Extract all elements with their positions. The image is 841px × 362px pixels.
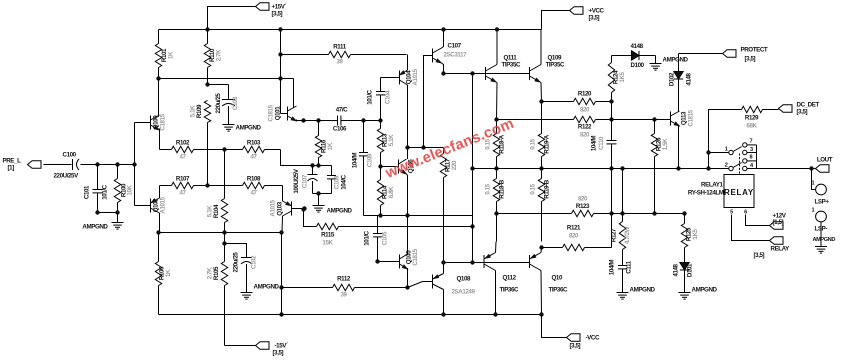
svg-text:220u/25: 220u/25 bbox=[233, 252, 240, 273]
svg-text:AMPGND: AMPGND bbox=[663, 57, 689, 64]
svg-text:C107: C107 bbox=[302, 174, 309, 188]
svg-text:6.8K: 6.8K bbox=[388, 186, 395, 198]
svg-text:68K: 68K bbox=[746, 123, 757, 130]
diode D101 bbox=[673, 248, 694, 293]
svg-text:[3,5]: [3,5] bbox=[797, 109, 808, 116]
ground C102 bbox=[241, 284, 280, 300]
svg-text:101/C: 101/C bbox=[102, 184, 109, 199]
svg-text:TIP35C: TIP35C bbox=[546, 62, 566, 69]
wire LSP+ feed bbox=[812, 169, 816, 190]
svg-text:220U/25V: 220U/25V bbox=[54, 173, 80, 180]
capacitor C111 bbox=[609, 250, 633, 293]
resistor R126 bbox=[651, 120, 669, 216]
wire node78 bbox=[156, 76, 293, 80]
resistor R102 bbox=[172, 140, 194, 161]
svg-text:Q112: Q112 bbox=[503, 275, 517, 282]
svg-text:[3,5]: [3,5] bbox=[273, 350, 284, 357]
transistor Q112 bbox=[484, 242, 519, 315]
wire left col down bbox=[279, 233, 283, 317]
svg-text:[3,5]: [3,5] bbox=[272, 11, 283, 18]
wire +15V rail bbox=[159, 29, 542, 31]
svg-text:47: 47 bbox=[179, 190, 186, 197]
svg-text:0.15: 0.15 bbox=[530, 183, 537, 194]
svg-text:C1815: C1815 bbox=[160, 113, 167, 130]
resistor R113 bbox=[377, 121, 395, 167]
wire PROTECT bbox=[679, 53, 723, 55]
wire fb column bbox=[609, 166, 613, 247]
svg-text:R129: R129 bbox=[745, 115, 759, 122]
svg-text:1K: 1K bbox=[165, 269, 172, 277]
svg-text:AMPGND: AMPGND bbox=[327, 208, 353, 215]
svg-text:C109: C109 bbox=[367, 153, 374, 167]
svg-text:47: 47 bbox=[250, 154, 257, 161]
svg-text:Q103: Q103 bbox=[277, 201, 284, 215]
svg-text:LSP+: LSP+ bbox=[815, 199, 830, 206]
ground D100 bbox=[650, 56, 689, 71]
wire line120 bbox=[297, 120, 338, 122]
wire fb line247 bbox=[542, 247, 563, 249]
wire bottom rail bbox=[159, 312, 544, 316]
svg-text:[3,5]: [3,5] bbox=[570, 343, 581, 350]
svg-text:15K: 15K bbox=[322, 240, 333, 247]
svg-text:C1815: C1815 bbox=[688, 109, 695, 126]
svg-text:4148: 4148 bbox=[673, 263, 680, 276]
watermark bbox=[382, 115, 516, 182]
resistor R101 bbox=[155, 30, 174, 79]
svg-text:R127: R127 bbox=[611, 228, 618, 242]
relay label bbox=[688, 182, 724, 197]
wire emitters line261 bbox=[441, 260, 529, 264]
capacitor C103 bbox=[205, 82, 239, 124]
svg-text:2.7K: 2.7K bbox=[216, 49, 223, 61]
svg-text:R103: R103 bbox=[247, 140, 261, 147]
resistor R109 bbox=[190, 101, 211, 186]
svg-text:R118-B: R118-B bbox=[499, 179, 506, 199]
wire line120b bbox=[341, 118, 383, 122]
wire +VCC feed bbox=[542, 11, 570, 30]
wire line216 bbox=[364, 213, 473, 217]
wire R111 feed bbox=[281, 54, 329, 56]
resistor R118-A bbox=[485, 117, 506, 168]
wire bias column bbox=[470, 74, 474, 263]
resistor R108 bbox=[243, 176, 265, 197]
resistor R114 bbox=[377, 164, 395, 215]
relay pins bbox=[730, 210, 747, 216]
resistor R119-A bbox=[530, 99, 551, 168]
svg-text:R112: R112 bbox=[337, 276, 351, 283]
svg-text:R122: R122 bbox=[578, 124, 592, 131]
svg-text:R121: R121 bbox=[567, 225, 581, 232]
transistor C107 driver bbox=[433, 27, 468, 74]
wire relay vert bbox=[706, 145, 756, 175]
svg-text:R102: R102 bbox=[176, 140, 190, 147]
svg-text:AMPGND: AMPGND bbox=[254, 284, 280, 291]
svg-text:Q109: Q109 bbox=[548, 55, 562, 62]
svg-text:R107: R107 bbox=[176, 176, 190, 183]
transistor Q108 bbox=[432, 263, 475, 315]
svg-text:4148: 4148 bbox=[631, 43, 644, 50]
svg-text:C102: C102 bbox=[251, 255, 258, 269]
svg-text:C103: C103 bbox=[232, 96, 239, 110]
resistor R119-B bbox=[530, 166, 551, 249]
svg-text:1K: 1K bbox=[327, 142, 334, 150]
svg-text:-15V´: -15V´ bbox=[275, 343, 288, 350]
resistor R105 bbox=[207, 233, 228, 346]
svg-text:47: 47 bbox=[250, 190, 257, 197]
resistor R116 bbox=[315, 121, 334, 166]
svg-text:Q111: Q111 bbox=[504, 55, 518, 62]
wire line232 bbox=[156, 230, 283, 234]
svg-text:2SA1249: 2SA1249 bbox=[452, 289, 476, 296]
diode D102 bbox=[669, 54, 693, 110]
diode D100 bbox=[612, 43, 656, 69]
resistor R111 bbox=[329, 44, 351, 66]
svg-text:820: 820 bbox=[569, 233, 579, 240]
svg-text:[3,5]: [3,5] bbox=[745, 56, 756, 63]
transistor Q106 bbox=[381, 159, 415, 216]
wire driver base line bbox=[441, 71, 529, 75]
svg-text:1K5: 1K5 bbox=[619, 71, 626, 82]
svg-text:Q113: Q113 bbox=[681, 111, 688, 125]
svg-text:Q108: Q108 bbox=[457, 276, 471, 283]
svg-text:AMPGND: AMPGND bbox=[692, 287, 718, 294]
svg-text:D102: D102 bbox=[669, 72, 676, 86]
svg-text:RELAY: RELAY bbox=[724, 188, 754, 197]
resistor R115 bbox=[301, 207, 474, 246]
svg-text:PRE_L: PRE_L bbox=[3, 158, 22, 165]
power flag +VCC bbox=[570, 7, 605, 22]
wire line213b bbox=[594, 211, 687, 215]
svg-text:R115: R115 bbox=[321, 232, 335, 239]
svg-text:C111: C111 bbox=[626, 260, 633, 273]
wire -15V bbox=[225, 345, 256, 347]
resistor R122 bbox=[497, 116, 671, 138]
svg-text:101/C: 101/C bbox=[367, 89, 374, 104]
svg-text:104/M: 104/M bbox=[609, 260, 616, 275]
wire mid185 bbox=[194, 183, 243, 187]
svg-text:47/C: 47/C bbox=[336, 107, 348, 114]
resistor R107 bbox=[172, 176, 194, 197]
svg-text:RELAY: RELAY bbox=[771, 246, 791, 253]
svg-text:10K: 10K bbox=[127, 184, 134, 195]
svg-text:104/C: 104/C bbox=[341, 174, 348, 189]
svg-text:4148: 4148 bbox=[686, 72, 693, 85]
resistor R123 bbox=[572, 196, 594, 217]
resistor R112 bbox=[282, 276, 433, 299]
svg-text:LOUT: LOUT bbox=[817, 157, 833, 164]
transistor Q101 bbox=[268, 27, 298, 121]
svg-text:2: 2 bbox=[725, 163, 728, 169]
transistor Q111 bbox=[486, 27, 522, 119]
svg-text:[1]: [1] bbox=[8, 165, 15, 172]
svg-text:+15V´: +15V´ bbox=[272, 4, 287, 11]
svg-text:47: 47 bbox=[179, 154, 186, 161]
svg-text:TIP35C: TIP35C bbox=[502, 62, 522, 69]
transistor Q100 bbox=[135, 79, 167, 150]
transistor Q102 bbox=[135, 186, 167, 233]
capacitor C100 bbox=[54, 152, 80, 180]
svg-text:Q10: Q10 bbox=[552, 275, 563, 282]
svg-text:R120: R120 bbox=[578, 91, 592, 98]
svg-text:AMPGND: AMPGND bbox=[236, 125, 262, 132]
resistor R120 bbox=[542, 91, 612, 114]
connector PRE_L bbox=[3, 158, 42, 172]
wire fb line213 bbox=[497, 213, 572, 215]
transistor Q109 bbox=[530, 30, 566, 102]
svg-text:D100: D100 bbox=[631, 62, 645, 69]
svg-text:[1,5]: [1,5] bbox=[773, 219, 784, 226]
svg-text:220: 220 bbox=[451, 160, 458, 170]
capacitor C108 bbox=[327, 166, 348, 194]
capacitor C101 bbox=[84, 165, 109, 213]
svg-text:DC_DET: DC_DET bbox=[797, 102, 820, 109]
svg-text:2SC3117: 2SC3117 bbox=[444, 52, 468, 59]
svg-text:RELAY1: RELAY1 bbox=[701, 182, 723, 189]
power flag RELAY bbox=[754, 237, 791, 259]
svg-text:C110: C110 bbox=[598, 136, 605, 150]
power flag +15V bbox=[256, 3, 287, 18]
svg-text:AMPGND: AMPGND bbox=[813, 237, 836, 243]
svg-text:100U/25V: 100U/25V bbox=[293, 168, 300, 194]
svg-text:PROTECT: PROTECT bbox=[741, 47, 768, 54]
svg-text:R119-A: R119-A bbox=[544, 134, 551, 154]
power flag LOUT bbox=[816, 157, 833, 173]
svg-text:R111: R111 bbox=[333, 44, 346, 51]
svg-text:7: 7 bbox=[750, 139, 753, 145]
resistor R103 bbox=[243, 140, 265, 161]
wire LSP- gnd bbox=[820, 222, 822, 247]
svg-text:820: 820 bbox=[580, 132, 590, 139]
svg-text:[3,5]: [3,5] bbox=[589, 15, 600, 22]
svg-text:1: 1 bbox=[812, 208, 815, 214]
relay contact 2 bbox=[725, 155, 757, 171]
wire line147 bbox=[408, 147, 444, 149]
resistor R125 bbox=[681, 214, 699, 248]
svg-text:1.5K: 1.5K bbox=[662, 138, 669, 150]
resistor R124 bbox=[608, 56, 626, 141]
svg-text:C101: C101 bbox=[84, 185, 91, 199]
power flag PROTECT bbox=[723, 47, 768, 63]
svg-text:Q101: Q101 bbox=[275, 106, 282, 120]
capacitor C102 bbox=[225, 244, 258, 293]
wire Q101 emitter line bbox=[297, 118, 338, 122]
transistor Q110 bbox=[529, 248, 568, 315]
svg-text:220u/25: 220u/25 bbox=[215, 93, 222, 114]
resistor R110 bbox=[204, 7, 222, 85]
svg-text:A1015: A1015 bbox=[270, 199, 277, 216]
svg-text:A1015: A1015 bbox=[160, 196, 167, 213]
svg-text:Q102: Q102 bbox=[153, 198, 160, 212]
transistor Q113 bbox=[671, 109, 695, 170]
wire line185 bbox=[160, 185, 172, 187]
svg-text:39: 39 bbox=[336, 59, 343, 66]
ground D101 bbox=[679, 287, 718, 300]
wire R111 to Q104 bbox=[351, 54, 407, 56]
svg-text:Q100: Q100 bbox=[153, 115, 160, 129]
wire +15V feed bbox=[205, 7, 255, 32]
svg-text:RY-SH-124LM: RY-SH-124LM bbox=[688, 190, 724, 197]
svg-text:R108: R108 bbox=[247, 176, 261, 183]
svg-text:R105: R105 bbox=[213, 266, 220, 280]
svg-text:R119-B: R119-B bbox=[544, 179, 551, 199]
svg-text:104/M: 104/M bbox=[352, 153, 359, 168]
wire base rail bbox=[132, 123, 136, 206]
capacitor C105 bbox=[364, 216, 389, 264]
svg-text:C107: C107 bbox=[448, 43, 462, 50]
svg-text:1: 1 bbox=[725, 147, 728, 153]
svg-text:TIP36C: TIP36C bbox=[500, 287, 520, 294]
wire relay coil 5 bbox=[732, 215, 770, 241]
wire cap bus bot bbox=[313, 191, 332, 205]
wire input bbox=[44, 164, 72, 166]
svg-text:1: 1 bbox=[812, 181, 815, 187]
svg-text:C1815: C1815 bbox=[268, 104, 275, 121]
ground C111 bbox=[617, 287, 656, 300]
svg-text:C108: C108 bbox=[334, 175, 341, 189]
capacitor C110 bbox=[591, 136, 617, 169]
svg-text:0.15: 0.15 bbox=[485, 183, 492, 194]
transistor Q104 bbox=[381, 55, 420, 160]
relay box bbox=[724, 175, 754, 208]
wire input node bbox=[81, 162, 135, 166]
resistor R117 bbox=[440, 148, 458, 263]
svg-text:4.7/2W: 4.7/2W bbox=[624, 226, 631, 244]
svg-text:820: 820 bbox=[580, 107, 590, 114]
svg-text:R123: R123 bbox=[576, 203, 590, 210]
svg-text:R104: R104 bbox=[213, 204, 220, 218]
svg-text:C1815: C1815 bbox=[412, 248, 419, 265]
resistor R129 bbox=[709, 106, 779, 152]
power flag +12V bbox=[770, 213, 787, 230]
resistor R104 bbox=[207, 150, 228, 233]
relay contact 1 bbox=[709, 139, 757, 155]
svg-text:39: 39 bbox=[340, 292, 347, 299]
svg-text:1K: 1K bbox=[168, 51, 175, 59]
svg-text:101/C: 101/C bbox=[364, 230, 371, 245]
terminal LSP- bbox=[812, 208, 828, 233]
svg-text:0.15: 0.15 bbox=[530, 138, 537, 149]
wire R103 right bbox=[265, 149, 281, 151]
svg-text:+VCC: +VCC bbox=[589, 8, 605, 15]
wire Q104col bus bbox=[421, 56, 432, 150]
svg-text:AMPGND: AMPGND bbox=[630, 287, 656, 294]
svg-text:C105: C105 bbox=[382, 231, 389, 245]
wire output rail bbox=[473, 166, 816, 170]
wire mid149 bbox=[194, 147, 243, 151]
ground caps bbox=[313, 206, 353, 215]
resistor R118-B bbox=[485, 166, 506, 241]
svg-text:C100: C100 bbox=[63, 152, 77, 159]
power flag -15V bbox=[256, 342, 288, 357]
svg-text:AMPGND: AMPGND bbox=[82, 224, 108, 231]
svg-text:[3,5]: [3,5] bbox=[754, 252, 765, 259]
svg-text:5.1K: 5.1K bbox=[388, 134, 395, 146]
resistor R127 bbox=[611, 166, 632, 249]
transistor Q105 bbox=[378, 216, 420, 290]
wire relay coil 6 bbox=[746, 215, 770, 226]
capacitor C104 bbox=[367, 78, 392, 121]
resistor R100 bbox=[114, 165, 133, 213]
wire -VCC bbox=[542, 315, 567, 338]
svg-text:R109: R109 bbox=[196, 104, 203, 118]
svg-text:D101: D101 bbox=[687, 263, 694, 277]
transistor Q103 bbox=[265, 186, 307, 233]
capacitor C106 bbox=[333, 107, 348, 133]
svg-text:TIP36C: TIP36C bbox=[549, 287, 569, 294]
svg-text:C106: C106 bbox=[333, 126, 347, 133]
terminal LSP+ bbox=[812, 181, 830, 206]
svg-text:-VCC: -VCC bbox=[586, 335, 600, 342]
wire line247b bbox=[585, 247, 612, 249]
svg-text:104/M: 104/M bbox=[591, 136, 598, 151]
wire gnd bus bbox=[95, 210, 119, 222]
wire cap bus top bbox=[281, 150, 332, 168]
ground C103 bbox=[223, 125, 262, 132]
power flag -VCC bbox=[567, 334, 600, 350]
svg-text:C104: C104 bbox=[385, 90, 392, 104]
capacitor C107cap bbox=[293, 166, 318, 194]
svg-text:A1015: A1015 bbox=[412, 68, 419, 85]
svg-text:1K5: 1K5 bbox=[692, 228, 699, 239]
svg-text:3: 3 bbox=[750, 147, 753, 153]
svg-text:820: 820 bbox=[578, 196, 588, 203]
resistor R121 bbox=[563, 225, 585, 251]
power flag DC_DET bbox=[779, 102, 820, 116]
svg-text:8: 8 bbox=[750, 155, 753, 161]
wire line149 bbox=[160, 149, 172, 151]
ground LSP- bbox=[813, 237, 836, 253]
capacitor C109 bbox=[352, 121, 374, 216]
ground input bbox=[82, 223, 123, 231]
resistor R106 bbox=[155, 233, 172, 315]
